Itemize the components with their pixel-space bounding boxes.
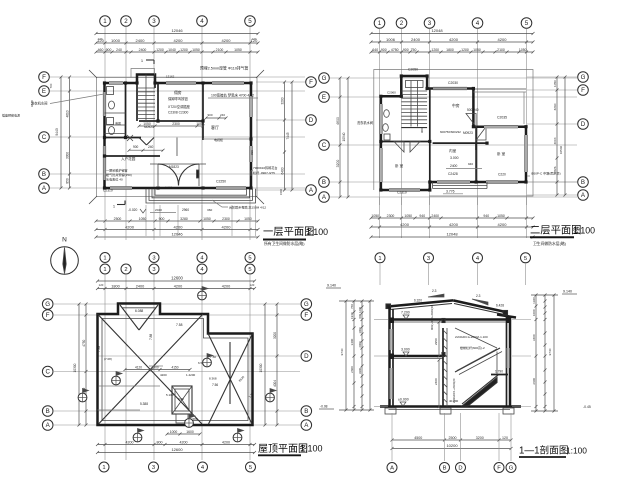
svg-text:9.140: 9.140 xyxy=(327,284,336,288)
svg-text:900: 900 xyxy=(106,48,112,52)
svg-text:4600: 4600 xyxy=(336,117,340,125)
svg-text:7.38: 7.38 xyxy=(97,346,101,352)
svg-text:1050: 1050 xyxy=(244,217,252,221)
svg-text:4200: 4200 xyxy=(174,285,182,289)
svg-text:460: 460 xyxy=(98,48,104,52)
svg-text:3200: 3200 xyxy=(280,97,284,104)
svg-text:2960: 2960 xyxy=(182,208,189,212)
svg-text:9440: 9440 xyxy=(30,100,34,107)
svg-text:500 240: 500 240 xyxy=(467,108,479,112)
svg-text:12048: 12048 xyxy=(431,28,443,33)
svg-text:3280: 3280 xyxy=(180,217,188,221)
svg-text:1050: 1050 xyxy=(371,214,379,218)
svg-text:台阶踏步每踏 高150M 4/12: 台阶踏步每踏 高150M 4/12 xyxy=(229,205,266,210)
svg-text:10540: 10540 xyxy=(559,145,563,154)
svg-text:760: 760 xyxy=(350,304,354,309)
svg-text:2: 2 xyxy=(400,20,404,27)
svg-text:1540: 1540 xyxy=(279,189,283,195)
svg-text:9.140: 9.140 xyxy=(563,290,572,294)
svg-text:G: G xyxy=(45,301,50,308)
svg-text:7.200: 7.200 xyxy=(401,311,410,315)
svg-text:5: 5 xyxy=(525,20,529,27)
svg-text:3: 3 xyxy=(152,465,155,471)
svg-text:2600: 2600 xyxy=(350,366,354,373)
svg-text:1200: 1200 xyxy=(180,48,188,52)
svg-text:3: 3 xyxy=(152,18,156,25)
svg-text:4200: 4200 xyxy=(125,225,135,230)
svg-text:2400: 2400 xyxy=(139,48,147,52)
svg-text:1.4200: 1.4200 xyxy=(186,373,196,377)
svg-text:7900910砖砌花台: 7900910砖砌花台 xyxy=(253,165,277,170)
svg-text:栏杆 .0907-3/75: 栏杆 .0907-3/75 xyxy=(253,170,275,175)
svg-text:120: 120 xyxy=(99,283,104,287)
svg-text:1200: 1200 xyxy=(461,48,469,52)
svg-text:1050: 1050 xyxy=(192,48,200,52)
svg-text:13162: 13162 xyxy=(166,75,175,79)
svg-text:C2428: C2428 xyxy=(448,172,458,176)
svg-text:1050: 1050 xyxy=(139,217,147,221)
svg-text:4004: 4004 xyxy=(553,137,557,144)
svg-text:1050: 1050 xyxy=(196,122,204,126)
svg-text:4200: 4200 xyxy=(449,37,459,42)
svg-text:2: 2 xyxy=(124,267,127,273)
svg-text:2.3: 2.3 xyxy=(432,289,437,293)
svg-text:10200: 10200 xyxy=(446,443,458,448)
svg-text:C220: C220 xyxy=(498,173,506,177)
svg-text:F: F xyxy=(304,312,308,319)
svg-text:900: 900 xyxy=(250,150,254,155)
svg-text:12048: 12048 xyxy=(446,231,458,236)
svg-text:6.320: 6.320 xyxy=(414,299,422,303)
svg-text:2300: 2300 xyxy=(172,122,180,126)
svg-text:4200: 4200 xyxy=(400,222,410,227)
svg-text:B: B xyxy=(322,179,326,186)
svg-text:3200: 3200 xyxy=(336,160,340,168)
svg-text:-0.020: -0.020 xyxy=(128,208,138,212)
svg-text:4200: 4200 xyxy=(180,441,188,445)
svg-text:1: 1 xyxy=(378,256,381,262)
svg-text:1050: 1050 xyxy=(473,48,481,52)
svg-text:2300: 2300 xyxy=(387,214,395,218)
svg-text:2400: 2400 xyxy=(434,378,438,385)
svg-text:内室: 内室 xyxy=(449,148,457,153)
svg-text:5: 5 xyxy=(524,256,527,262)
svg-text:1: 1 xyxy=(103,256,106,262)
svg-text:8.368: 8.368 xyxy=(209,377,217,381)
svg-text:3260: 3260 xyxy=(553,103,557,110)
svg-text:C2310: C2310 xyxy=(397,191,407,195)
svg-text:2300: 2300 xyxy=(222,217,230,221)
svg-text:600750/600232: 600750/600232 xyxy=(440,130,461,134)
svg-text:F: F xyxy=(309,79,313,86)
svg-text:(7.08): (7.08) xyxy=(104,357,112,361)
svg-text:4200: 4200 xyxy=(222,225,232,230)
svg-text:M1823: M1823 xyxy=(169,165,179,169)
svg-text:7.56: 7.56 xyxy=(212,383,218,387)
svg-text:10300: 10300 xyxy=(73,363,77,372)
svg-text:F: F xyxy=(581,87,585,94)
svg-text:4200: 4200 xyxy=(449,222,459,227)
svg-text:1200: 1200 xyxy=(358,307,362,313)
svg-text:G: G xyxy=(304,301,309,308)
svg-text:2.3: 2.3 xyxy=(476,294,481,298)
svg-text:D: D xyxy=(304,353,309,360)
svg-text:2x60x0C1+2060(20: 2x60x0C1+2060(20 xyxy=(452,378,456,403)
svg-text:C2060: C2060 xyxy=(387,91,396,95)
svg-text:2400: 2400 xyxy=(431,214,439,218)
svg-text:1050: 1050 xyxy=(203,217,211,221)
svg-text:A: A xyxy=(390,466,394,472)
svg-text:1: 1 xyxy=(103,267,106,273)
svg-text:4200: 4200 xyxy=(160,373,167,377)
svg-text:7445: 7445 xyxy=(286,132,290,139)
svg-text:9740: 9740 xyxy=(548,348,552,355)
svg-text:900(+DC1+2060(20: 900(+DC1+2060(20 xyxy=(430,305,434,330)
svg-text:M0923: M0923 xyxy=(463,131,473,135)
svg-text:5.100: 5.100 xyxy=(166,393,174,397)
svg-text:240: 240 xyxy=(220,113,225,117)
svg-text:保姆呼叫按钮: 保姆呼叫按钮 xyxy=(168,96,188,101)
svg-text:2500: 2500 xyxy=(114,217,122,221)
svg-text:1050: 1050 xyxy=(553,80,557,87)
svg-text:卧 室: 卧 室 xyxy=(497,151,506,156)
svg-text:4200: 4200 xyxy=(498,222,508,227)
svg-text:5: 5 xyxy=(248,267,251,273)
svg-text:100宽暗轨 梦思床 4700 4/12: 100宽暗轨 梦思床 4700 4/12 xyxy=(211,93,254,98)
svg-text:700: 700 xyxy=(49,83,53,88)
svg-text:9440: 9440 xyxy=(55,128,59,136)
svg-text:360: 360 xyxy=(207,208,212,212)
svg-text:2400: 2400 xyxy=(136,285,144,289)
svg-text:4200: 4200 xyxy=(498,37,508,42)
svg-text:D: D xyxy=(458,466,462,472)
svg-text:C: C xyxy=(322,142,327,149)
svg-text:900: 900 xyxy=(403,48,409,52)
svg-text:4200: 4200 xyxy=(222,38,232,43)
svg-text:所有卫生间做防水层(略): 所有卫生间做防水层(略) xyxy=(264,241,305,246)
svg-text:1000: 1000 xyxy=(532,309,536,316)
svg-text:F: F xyxy=(46,312,50,319)
svg-text:10540: 10540 xyxy=(342,132,346,141)
svg-text:4200: 4200 xyxy=(174,225,184,230)
svg-text:1050: 1050 xyxy=(497,214,505,218)
svg-text:卫生间做防水层(略): 卫生间做防水层(略) xyxy=(533,241,567,246)
svg-text:2500: 2500 xyxy=(449,436,457,440)
svg-text:1050: 1050 xyxy=(234,48,242,52)
svg-text:1: 1 xyxy=(102,465,105,471)
svg-text:6.428: 6.428 xyxy=(496,304,504,308)
svg-text:楼梯栏杆(600高)-2: 楼梯栏杆(600高)-2 xyxy=(460,345,485,350)
svg-text:B: B xyxy=(46,408,50,415)
svg-text:C2310: C2310 xyxy=(103,189,113,193)
svg-text:6400: 6400 xyxy=(280,167,284,174)
svg-text:2000: 2000 xyxy=(358,341,362,347)
svg-text:C2035: C2035 xyxy=(497,116,507,120)
svg-text:E: E xyxy=(322,94,326,101)
svg-text:1:100: 1:100 xyxy=(300,444,323,454)
svg-text:中房: 中房 xyxy=(452,103,460,108)
svg-text:4004: 4004 xyxy=(273,380,277,387)
svg-text:1:100: 1:100 xyxy=(573,225,595,235)
svg-text:C2050: C2050 xyxy=(408,68,418,72)
svg-text:4150: 4150 xyxy=(171,366,178,370)
svg-text:2400: 2400 xyxy=(411,37,421,42)
svg-text:B: B xyxy=(581,179,585,186)
svg-text:2600: 2600 xyxy=(532,378,536,385)
svg-text:C: C xyxy=(45,369,50,376)
svg-text:1050: 1050 xyxy=(519,48,527,52)
svg-text:4500: 4500 xyxy=(414,436,422,440)
svg-text:1940: 1940 xyxy=(532,297,536,304)
svg-text:客厅: 客厅 xyxy=(211,124,219,130)
svg-text:600: 600 xyxy=(358,314,362,319)
svg-text:12046: 12046 xyxy=(171,231,183,236)
svg-text:940: 940 xyxy=(419,214,425,218)
svg-text:1000: 1000 xyxy=(111,38,121,43)
svg-text:C2250: C2250 xyxy=(216,180,226,184)
svg-text:2950: 2950 xyxy=(434,338,438,345)
svg-text:12046: 12046 xyxy=(171,28,183,33)
svg-text:3300: 3300 xyxy=(358,368,362,374)
svg-text:4200: 4200 xyxy=(222,285,230,289)
svg-text:3400: 3400 xyxy=(532,334,536,341)
svg-text:B: B xyxy=(443,466,447,472)
svg-text:卧 室: 卧 室 xyxy=(395,163,404,168)
svg-text:4: 4 xyxy=(476,20,480,27)
svg-text:1:100: 1:100 xyxy=(566,445,587,455)
svg-text:400: 400 xyxy=(153,366,159,370)
svg-text:G: G xyxy=(322,75,327,82)
svg-text:120: 120 xyxy=(98,37,103,41)
svg-text:±0.000: ±0.000 xyxy=(398,398,409,402)
svg-text:900: 900 xyxy=(159,217,165,221)
svg-text:1940: 1940 xyxy=(350,312,354,319)
svg-text:一层采暖炉留置: 一层采暖炉留置 xyxy=(106,168,128,173)
svg-text:3: 3 xyxy=(152,256,155,262)
svg-text:F: F xyxy=(42,74,46,81)
svg-text:5.388: 5.388 xyxy=(140,402,148,406)
svg-text:940: 940 xyxy=(483,214,489,218)
svg-text:3: 3 xyxy=(152,267,155,273)
svg-text:240: 240 xyxy=(116,48,122,52)
svg-text:750: 750 xyxy=(411,48,417,52)
svg-text:900: 900 xyxy=(133,145,139,149)
svg-text:3300: 3300 xyxy=(65,152,69,159)
svg-text:4750: 4750 xyxy=(82,339,86,346)
svg-text:5: 5 xyxy=(249,465,252,471)
svg-text:1040: 1040 xyxy=(168,48,176,52)
svg-text:900: 900 xyxy=(207,113,212,117)
svg-text:1:100: 1:100 xyxy=(306,227,328,237)
svg-text:800: 800 xyxy=(157,441,163,445)
svg-text:3: 3 xyxy=(427,256,430,262)
svg-text:水电表位 40: 水电表位 40 xyxy=(106,177,123,182)
svg-text:3200: 3200 xyxy=(476,436,484,440)
svg-text:120: 120 xyxy=(502,436,508,440)
svg-text:佣房: 佣房 xyxy=(174,90,182,95)
svg-text:B: B xyxy=(304,408,308,415)
svg-text:G: G xyxy=(581,74,586,81)
svg-text:N: N xyxy=(62,237,67,244)
svg-text:C2308 C2300: C2308 C2300 xyxy=(168,111,189,115)
svg-text:洗衣机水阀: 洗衣机水阀 xyxy=(357,120,373,125)
svg-text:9740: 9740 xyxy=(340,348,344,355)
svg-text:4750: 4750 xyxy=(391,48,399,52)
svg-text:入户花园: 入户花园 xyxy=(121,156,136,161)
svg-text:2: 2 xyxy=(124,18,128,25)
svg-text:4200: 4200 xyxy=(174,38,184,43)
svg-text:D: D xyxy=(309,117,314,124)
svg-text:2040: 2040 xyxy=(155,208,162,212)
svg-text:C: C xyxy=(42,134,47,141)
svg-text:1200: 1200 xyxy=(156,48,164,52)
svg-text:12600: 12600 xyxy=(171,276,183,281)
svg-text:2100: 2100 xyxy=(216,48,224,52)
svg-text:2400: 2400 xyxy=(450,164,458,168)
svg-text:5: 5 xyxy=(248,256,251,262)
svg-text:1200: 1200 xyxy=(431,48,439,52)
svg-text:3400: 3400 xyxy=(350,338,354,345)
svg-text:2400: 2400 xyxy=(136,38,146,43)
svg-text:240: 240 xyxy=(148,145,154,149)
svg-text:9.00: 9.00 xyxy=(178,397,184,401)
svg-text:900: 900 xyxy=(381,48,387,52)
svg-text:7.58: 7.58 xyxy=(176,323,183,327)
svg-text:2x60xDC1+2060A 1.100: 2x60xDC1+2060A 1.100 xyxy=(455,335,488,339)
svg-text:4: 4 xyxy=(200,18,204,25)
svg-text:120: 120 xyxy=(252,37,257,41)
svg-text:G: G xyxy=(509,466,514,472)
svg-text:3.000: 3.000 xyxy=(450,156,459,160)
svg-text:900: 900 xyxy=(420,128,424,133)
svg-text:4200: 4200 xyxy=(126,441,134,445)
svg-text:-0.020: -0.020 xyxy=(164,186,173,190)
svg-text:预埋2.5mm厚管 Φ110排气管: 预埋2.5mm厚管 Φ110排气管 xyxy=(200,66,249,71)
svg-text:1: 1 xyxy=(103,18,107,25)
svg-text:4200: 4200 xyxy=(222,441,230,445)
svg-text:940: 940 xyxy=(468,162,473,166)
svg-text:E: E xyxy=(42,88,46,95)
svg-text:D: D xyxy=(581,121,586,128)
svg-text:3: 3 xyxy=(428,20,432,27)
svg-text:3.776: 3.776 xyxy=(446,190,455,194)
svg-text:12600: 12600 xyxy=(171,447,183,452)
svg-text:1800: 1800 xyxy=(446,48,454,52)
svg-text:3200: 3200 xyxy=(273,332,277,339)
svg-text:1—1剖面图: 1—1剖面图 xyxy=(519,444,569,457)
svg-text:1050: 1050 xyxy=(404,214,412,218)
svg-text:1000: 1000 xyxy=(170,430,178,434)
svg-text:电视柜: 电视柜 xyxy=(214,137,223,142)
svg-text:1.790: 1.790 xyxy=(495,370,503,374)
svg-text:1: 1 xyxy=(378,20,382,27)
svg-text:1600: 1600 xyxy=(186,430,194,434)
svg-text:1006: 1006 xyxy=(386,37,396,42)
svg-text:4610: 4610 xyxy=(65,110,69,117)
svg-text:-0.08: -0.08 xyxy=(320,405,328,409)
svg-text:插座预留电源: 插座预留电源 xyxy=(2,113,20,118)
svg-text:5: 5 xyxy=(248,18,252,25)
svg-text:B: B xyxy=(42,171,46,178)
svg-text:850: 850 xyxy=(65,178,69,184)
svg-text:7.88: 7.88 xyxy=(149,334,153,340)
svg-text:F: F xyxy=(497,466,501,472)
svg-text:120: 120 xyxy=(250,283,255,287)
svg-text:3.000: 3.000 xyxy=(401,348,410,352)
svg-text:C2030: C2030 xyxy=(448,81,458,85)
svg-text:6.088: 6.088 xyxy=(135,309,143,313)
svg-text:2100: 2100 xyxy=(497,48,505,52)
svg-text:暖气管井预留(250): 暖气管井预留(250) xyxy=(106,172,132,177)
svg-text:1050: 1050 xyxy=(143,122,151,126)
svg-text:浴霸: 浴霸 xyxy=(115,121,121,126)
svg-text:1800: 1800 xyxy=(111,285,119,289)
svg-text:10300: 10300 xyxy=(259,363,263,372)
svg-text:-0.45: -0.45 xyxy=(583,405,591,409)
svg-text:Φ50P-C 中路(雨水管): Φ50P-C 中路(雨水管) xyxy=(531,171,561,176)
svg-text:XT20/空调插座: XT20/空调插座 xyxy=(168,104,191,109)
svg-text:4120: 4120 xyxy=(135,366,142,370)
svg-text:1000: 1000 xyxy=(358,327,362,333)
svg-text:640: 640 xyxy=(372,48,378,52)
